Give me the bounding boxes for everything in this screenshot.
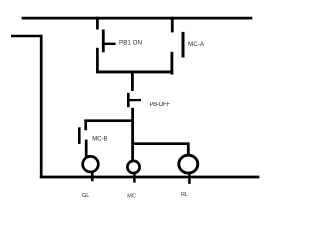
svg-text:MC: MC: [127, 193, 136, 199]
PB-OFF actuator tap: [128, 99, 141, 101]
wire down to RL lamp: [187, 143, 190, 156]
wire from MC-B contact down to GL lamp: [85, 140, 88, 158]
bottom return rail L2: [40, 176, 260, 179]
svg-text:PB1 ON: PB1 ON: [119, 40, 143, 47]
main vertical wire from PB-OFF down to MC coil: [131, 108, 134, 160]
svg-text:MC-A: MC-A: [188, 41, 205, 48]
wire from node A down to PB-OFF contact: [131, 71, 134, 91]
GL lamp lead to bottom rail: [91, 172, 94, 181]
wire from top rail to MC-A contact: [171, 17, 174, 33]
svg-text:MC-B: MC-B: [92, 136, 107, 142]
pushbutton contact PB-OFF bar: [127, 93, 130, 107]
mid horizontal connector wire (node A): [96, 70, 173, 73]
horizontal connector wire to RL branch: [133, 142, 189, 145]
svg-text:PB-OFF: PB-OFF: [150, 102, 171, 108]
coil MC: [127, 161, 139, 173]
wire from top rail to PB1 contact: [96, 17, 99, 30]
top power rail L1: [22, 17, 253, 20]
contact MC-B bar: [78, 127, 81, 144]
svg-text:GL: GL: [82, 193, 89, 199]
left rail horizontal stub: [11, 35, 42, 38]
left rail vertical wire: [40, 35, 43, 178]
wire from MC-A contact down to mid node: [170, 52, 173, 75]
contact MC-A bar: [182, 32, 185, 58]
pushbutton contact PB1 ON bar: [102, 30, 105, 53]
svg-text:RL: RL: [181, 192, 188, 198]
indicator lamp RL: [179, 155, 198, 173]
indicator lamp GL: [83, 156, 99, 172]
MC coil lead to bottom rail: [133, 173, 136, 182]
PB1 ON actuator tap: [103, 43, 115, 45]
wire down to MC-B contact: [84, 120, 87, 131]
wire from PB1 contact down to mid node: [96, 48, 99, 73]
horizontal connector wire to MC-B branch: [84, 119, 132, 122]
RL lamp lead to bottom rail: [188, 174, 191, 184]
